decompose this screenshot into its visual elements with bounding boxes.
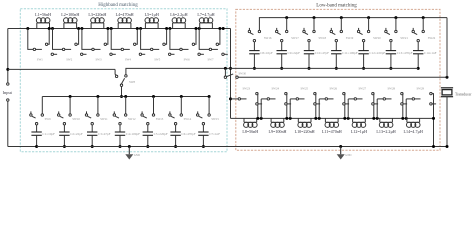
switch SW12 [124, 95, 127, 98]
node C7 ground [202, 145, 205, 148]
switch SW9 [41, 97, 43, 114]
inductor L8 [243, 118, 245, 122]
svg-text:SW5: SW5 [154, 58, 161, 62]
wire low-band chain [231, 117, 434, 119]
wire input to ground bus [8, 146, 37, 148]
capacitor C8 [253, 42, 255, 51]
svg-text:SW10: SW10 [72, 117, 80, 121]
svg-text:L12=1µH: L12=1µH [351, 129, 367, 134]
svg-text:SW19: SW19 [346, 36, 354, 40]
capacitor C2 [63, 125, 65, 132]
svg-text:SW29: SW29 [417, 87, 425, 91]
svg-text:C10=47pF: C10=47pF [315, 51, 329, 55]
svg-text:L7=4.7µH: L7=4.7µH [197, 12, 214, 17]
wire low-band cap top bus [259, 18, 447, 31]
svg-text:SW8: SW8 [129, 80, 136, 84]
switch SW4 [111, 29, 121, 50]
node C4 ground [119, 145, 122, 148]
svg-text:SW12: SW12 [128, 117, 136, 121]
switch SW19 [340, 16, 343, 19]
node C9 mid bus [280, 67, 283, 70]
switch SW2 [53, 29, 63, 50]
capacitor C13 [390, 42, 392, 51]
svg-text:SW1: SW1 [37, 58, 44, 62]
svg-text:SW4: SW4 [125, 58, 131, 62]
switch SW18 [313, 16, 316, 19]
switch SW20 [367, 16, 370, 19]
svg-text:C4=100pF: C4=100pF [126, 132, 140, 136]
svg-text:SW23: SW23 [243, 87, 251, 91]
node junction 1 [48, 27, 51, 30]
svg-text:C1=10pF: C1=10pF [42, 132, 55, 136]
switch SW23 [229, 97, 232, 100]
node junction low 1 [256, 117, 259, 120]
switch SW7 [199, 29, 209, 50]
node junction low 5 [372, 117, 375, 120]
svg-text:SW6: SW6 [184, 58, 191, 62]
ground high-band [128, 145, 131, 148]
svg-text:L11=470nH: L11=470nH [322, 129, 342, 134]
svg-text:C8=10pF: C8=10pF [260, 51, 273, 55]
capacitor C7 [202, 125, 204, 132]
wire low-band rail [238, 76, 447, 78]
svg-text:SW27: SW27 [359, 87, 367, 91]
svg-text:SW15: SW15 [211, 117, 219, 121]
switch SW6 [170, 29, 180, 50]
svg-text:SW17: SW17 [291, 36, 299, 40]
svg-text:L9=100nH: L9=100nH [268, 129, 286, 134]
wire SW8 to low-band mid bus [126, 68, 231, 74]
wire low-band mid bus [231, 67, 419, 69]
switch SW24 [260, 99, 262, 119]
node junction 4 [136, 27, 139, 30]
switch SW26 [318, 99, 320, 119]
svg-text:Highband matching: Highband matching [98, 3, 138, 8]
svg-text:GND: GND [345, 154, 351, 157]
node C12 mid bus [362, 67, 365, 70]
svg-text:C6=470pF: C6=470pF [181, 132, 195, 136]
svg-text:L2=100nH: L2=100nH [61, 12, 79, 17]
node junction 7 [218, 27, 221, 30]
svg-text:C13=470pF: C13=470pF [397, 51, 413, 55]
node C8 mid bus [253, 67, 256, 70]
capacitor C14 [417, 42, 419, 51]
node junction low 6 [401, 117, 404, 120]
port Input [7, 29, 9, 83]
node junction 5 [165, 27, 168, 30]
switch SW15 [208, 95, 211, 98]
svg-text:L1=56nH: L1=56nH [35, 12, 51, 17]
wire input main rail [8, 68, 115, 70]
inductor L10 [297, 118, 299, 122]
svg-text:L8=56nH: L8=56nH [242, 129, 258, 134]
node C1 ground [35, 145, 38, 148]
svg-text:SW21: SW21 [400, 36, 408, 40]
node C11 mid bus [335, 67, 338, 70]
node junction low 2 [285, 117, 288, 120]
wire high-band chain bus [8, 28, 231, 30]
node C14 mid bus [417, 67, 420, 70]
svg-text:C5=220pF: C5=220pF [154, 132, 168, 136]
capacitor C1 [36, 125, 38, 132]
high-band matching region box [20, 9, 227, 152]
inductor L6 [172, 23, 174, 29]
node chain-end mid junction [229, 67, 232, 70]
wire chain end drop [230, 29, 232, 119]
svg-text:SW7: SW7 [208, 58, 215, 62]
switch SW29 [405, 99, 407, 119]
svg-text:L5=1µH: L5=1µH [145, 12, 159, 17]
svg-text:C14=1nF: C14=1nF [424, 51, 437, 55]
wire chain output to ground bus [433, 118, 435, 146]
switch SW1 [26, 27, 29, 30]
svg-text:SW25: SW25 [301, 87, 309, 91]
wire transducer top feed [446, 18, 448, 78]
switch SW14 [180, 95, 183, 98]
svg-text:SW2: SW2 [66, 58, 73, 62]
svg-text:Input: Input [3, 90, 13, 95]
capacitor C4 [119, 125, 121, 132]
svg-text:SW13: SW13 [156, 117, 164, 121]
capacitor C9 [281, 42, 283, 51]
svg-text:GND: GND [134, 154, 140, 157]
svg-text:L14=4.7µH: L14=4.7µH [404, 129, 423, 134]
wire high-band cap bus [42, 96, 209, 98]
inductor L4 [117, 23, 119, 29]
inductor L7 [199, 23, 201, 29]
node C13 mid bus [389, 67, 392, 70]
capacitor C6 [175, 125, 177, 132]
ground low-band [339, 145, 342, 148]
node C2 ground [63, 145, 66, 148]
node junction low 3 [314, 117, 317, 120]
node rail transducer junction [446, 76, 449, 79]
switch SW11 [96, 95, 99, 98]
switch SW17 [285, 16, 288, 19]
svg-text:C12=220pF: C12=220pF [369, 51, 385, 55]
node C6 ground [174, 145, 177, 148]
inductor L9 [270, 118, 272, 122]
switch SW5 [141, 29, 151, 50]
inductor L14 [406, 118, 408, 122]
capacitor C3 [91, 125, 93, 132]
inductor L3 [90, 23, 92, 29]
inductor L11 [324, 118, 326, 122]
svg-text:Low-band matching: Low-band matching [316, 3, 357, 8]
capacitor C5 [147, 125, 149, 132]
inductor L2 [63, 23, 65, 29]
svg-text:SW30: SW30 [239, 72, 247, 76]
node junction 3 [106, 27, 109, 30]
inductor L13 [379, 118, 381, 122]
switch SW28 [376, 99, 378, 119]
svg-text:C9=22pF: C9=22pF [288, 51, 301, 55]
switch SW13 [152, 95, 155, 98]
node input-main junction [6, 68, 9, 71]
svg-text:Transducer: Transducer [455, 92, 472, 96]
node C10 mid bus [308, 67, 311, 70]
svg-text:SW16: SW16 [264, 36, 272, 40]
svg-text:SW20: SW20 [373, 36, 381, 40]
node junction 2 [77, 27, 80, 30]
svg-text:SW14: SW14 [184, 117, 192, 121]
svg-text:C3=47pF: C3=47pF [98, 132, 111, 136]
svg-text:SW18: SW18 [319, 36, 327, 40]
low-band matching region box [236, 9, 440, 150]
svg-text:L3=220nH: L3=220nH [88, 12, 106, 17]
svg-text:L4=470nH: L4=470nH [116, 12, 134, 17]
capacitor C12 [363, 42, 365, 51]
node C3 ground [91, 145, 94, 148]
svg-text:C2=22pF: C2=22pF [70, 132, 83, 136]
wire ground bus [37, 146, 447, 148]
switch SW3 [82, 29, 92, 50]
svg-text:SW28: SW28 [388, 87, 396, 91]
switch SW22 [422, 16, 425, 19]
svg-text:SW9: SW9 [45, 117, 52, 121]
node C5 ground [146, 145, 149, 148]
switch SW27 [347, 99, 349, 119]
capacitor C11 [335, 42, 337, 51]
svg-text:C7=1nF: C7=1nF [209, 132, 220, 136]
svg-text:SW11: SW11 [100, 117, 108, 121]
switch SW10 [69, 95, 72, 98]
inductor L12 [352, 118, 354, 122]
transducer [441, 87, 453, 89]
svg-text:SW3: SW3 [96, 58, 103, 62]
svg-text:L6=2.2µH: L6=2.2µH [170, 12, 187, 17]
node junction low 4 [343, 117, 346, 120]
svg-text:C11=100pF: C11=100pF [342, 51, 358, 55]
svg-text:SW24: SW24 [272, 87, 280, 91]
switch SW8 [115, 69, 116, 75]
inductor L1 [36, 23, 38, 29]
svg-text:SW22: SW22 [428, 36, 436, 40]
switch SW16 [258, 30, 260, 32]
svg-text:SW26: SW26 [330, 87, 338, 91]
inductor L5 [144, 23, 146, 29]
svg-text:L13=2.2µH: L13=2.2µH [376, 129, 395, 134]
svg-text:L10=220nH: L10=220nH [295, 129, 315, 134]
node junction 6 [195, 27, 198, 30]
switch SW21 [394, 16, 397, 19]
capacitor C10 [308, 42, 310, 51]
switch SW30 [224, 67, 227, 70]
switch SW25 [289, 99, 291, 119]
